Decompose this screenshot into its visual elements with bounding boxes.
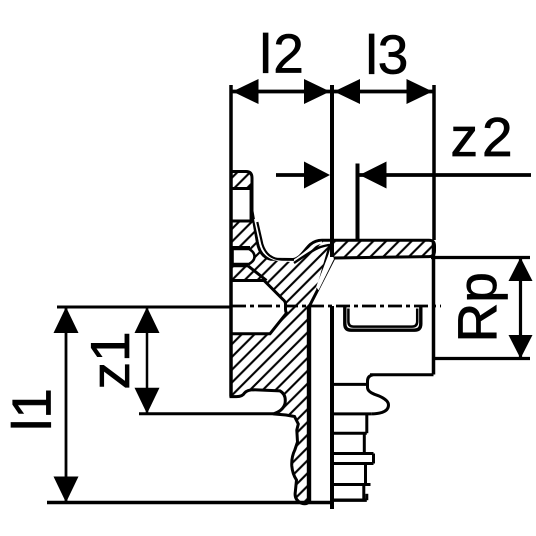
socket bottom (370, 373, 434, 376)
svg-text:Rp: Rp (446, 272, 508, 342)
svg-text:l2: l2 (260, 23, 306, 85)
l1 reference bottom line (47, 501, 333, 505)
arrow l2 right (304, 79, 330, 104)
svg-text:l1: l1 (1, 388, 63, 431)
svg-text:z2: z2 (451, 106, 517, 168)
down-branch bore (white) (312, 307, 330, 511)
centerline dash-dot (232, 305, 441, 308)
svg-text:z1: z1 (79, 331, 141, 389)
shoulder S-curve (368, 375, 389, 414)
small arrow to axis (276, 173, 306, 177)
dimension line l2/l3 (233, 90, 331, 94)
arrow l2 left (233, 79, 259, 104)
barb profile right (365, 414, 368, 433)
l1 reference top line (57, 306, 230, 309)
left extension + face line x=231 (229, 85, 233, 397)
valley double line (255, 219, 322, 261)
collar bottom right (334, 412, 372, 415)
press bore (white) (231, 281, 287, 334)
sleeve divider lines (231, 187, 251, 190)
shoulder silhouette line (334, 383, 367, 386)
arrow l3 left (334, 79, 360, 104)
z2 dimension line + arrow (360, 173, 532, 177)
section boundary x=332 (bottom) (330, 306, 334, 509)
z2 extension line (356, 164, 360, 241)
sleeve D cell (233, 249, 255, 264)
right extension x=434 (432, 85, 436, 240)
Rp dimension (431, 256, 530, 259)
l1 dimension line (65, 307, 68, 503)
thread window outer (345, 307, 421, 331)
neck inner curve + socket cone inner line (294, 245, 330, 290)
sleeve white cell upper (233, 190, 251, 220)
arrow l3 right (407, 79, 433, 104)
z1 dimension (139, 412, 273, 415)
fitting body section (hatched) (231, 172, 435, 504)
thread window inner (348, 309, 417, 327)
middle extension/section boundary x=332 (top) (330, 85, 334, 257)
socket face line (432, 243, 436, 375)
svg-text:l3: l3 (366, 24, 409, 86)
